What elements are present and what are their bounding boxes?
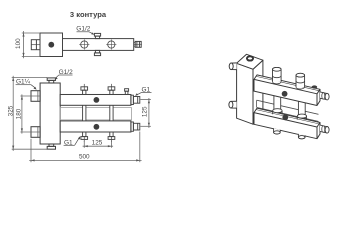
plan left fitting G1 1/4 (31, 40, 40, 50)
dimension 325 (12, 76, 50, 151)
svg-text:100: 100 (15, 38, 22, 49)
iso socket on bottom bar, circuit 2 (297, 114, 306, 120)
iso cylinder fitting 1 on top bar (273, 67, 282, 83)
label G1/2 (front view) (54, 69, 73, 80)
iso cylinder fitting 2 on top bar (296, 73, 305, 89)
dimension 180 (20, 94, 40, 133)
iso front port on top bar (282, 91, 288, 97)
iso top bar (254, 75, 320, 106)
svg-text:180: 180 (16, 108, 23, 119)
iso connecting plate edges (257, 100, 319, 121)
plan back port fitting (94, 33, 100, 38)
riser fitting 1 above top bar (81, 84, 88, 95)
top manifold bar (60, 95, 131, 106)
air vent fitting on top bar (125, 89, 129, 95)
down fitting 2 below bottom bar (108, 132, 115, 142)
plan riser opening 2 (circle-cross) (106, 39, 116, 49)
iso bottom bar (254, 108, 320, 139)
front port top bar (dark circle) (94, 97, 100, 103)
riser pipes between bars, circuit 1 (83, 105, 86, 121)
left fitting 2 (G1 1/4) (31, 127, 40, 138)
plan top port (dark circle) (48, 42, 54, 48)
iso socket on bottom bar, circuit 1 (273, 109, 282, 115)
left fitting 1 (G1 1/4) (31, 91, 40, 102)
iso end stub of bottom bar (320, 125, 329, 133)
iso box right face (253, 60, 263, 124)
right end stub of bottom bar (131, 122, 140, 131)
iso down stub 2 below bottom bar (298, 134, 305, 139)
iso front port on bottom bar (282, 114, 288, 120)
iso box top face (237, 54, 263, 69)
dimension 125 (horizontal bottom) (83, 141, 114, 148)
iso box left face (237, 63, 253, 124)
iso down stub 1 below bottom bar (274, 128, 281, 134)
down fitting 1 below bottom bar (81, 132, 88, 142)
iso pipe between bars, circuit 2 (298, 101, 305, 119)
bottom manifold bar (60, 121, 131, 132)
svg-text:125: 125 (141, 106, 148, 117)
svg-text:125: 125 (92, 139, 103, 146)
separator body (front) (40, 83, 60, 144)
right end stub of top bar (131, 95, 140, 104)
plan riser opening 1 (circle-cross) (79, 39, 89, 49)
iso air vent port (dark) on top bar (312, 85, 318, 88)
label G1 (bottom left) (64, 136, 81, 146)
connecting plate between bars (60, 108, 131, 120)
iso pipe between bars, circuit 1 (274, 96, 281, 113)
iso upper-left stub (229, 63, 236, 70)
title: 3 контура (70, 10, 107, 19)
plan block (separator body, top view) (40, 33, 63, 57)
body top fitting G1/2 (47, 78, 55, 83)
dimension 500 (29, 132, 141, 163)
iso lower-left stub (229, 101, 237, 108)
plan right end stub (134, 41, 142, 47)
label G1 (top right) (135, 86, 152, 96)
plan front port fitting (94, 50, 100, 55)
label G1 1/4 (front view) (16, 79, 37, 90)
iso box top port ring (247, 56, 253, 61)
iso end stub of top bar (320, 92, 329, 100)
body drain fitting (47, 144, 55, 149)
riser pipes between bars, circuit 2 (110, 105, 113, 121)
front port bottom bar (dark circle) (94, 124, 100, 130)
plan manifold bar (63, 39, 134, 51)
dimension 125 (vertical right) (140, 98, 151, 128)
svg-text:3 контура: 3 контура (70, 10, 107, 19)
svg-text:500: 500 (79, 153, 90, 160)
dimension 100 (plan) (22, 31, 40, 58)
label G1/2 (plan) (76, 26, 94, 35)
riser fitting 2 above top bar (108, 84, 115, 95)
iso separator box (229, 54, 263, 124)
svg-text:325: 325 (7, 105, 14, 116)
